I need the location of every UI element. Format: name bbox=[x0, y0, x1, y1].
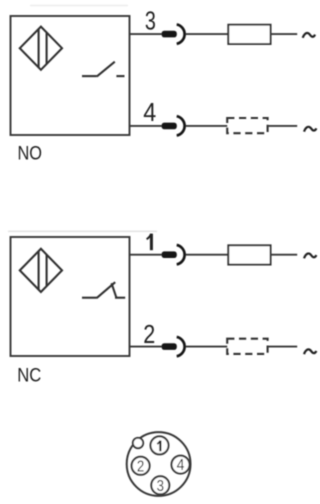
socket arc (wire 1) bbox=[177, 245, 185, 264]
wire 1 (box to plug) bbox=[130, 254, 162, 256]
optional load (dashed, wire 2) bbox=[227, 339, 267, 354]
pin 2 circle bbox=[132, 457, 150, 475]
AC source tilde (wire 2) bbox=[304, 349, 316, 354]
svg-text:2: 2 bbox=[137, 458, 144, 475]
load resistor (wire 1) bbox=[228, 245, 270, 264]
svg-text:4: 4 bbox=[177, 457, 185, 474]
wire 4 (box to plug) bbox=[130, 125, 162, 127]
pin 1 circle bbox=[151, 436, 169, 454]
wire 3 (box to plug) bbox=[130, 33, 162, 35]
plug contact (wire 4) bbox=[162, 123, 177, 130]
svg-text:4: 4 bbox=[143, 97, 156, 127]
svg-text:2: 2 bbox=[143, 319, 155, 349]
wire 2 (socket to load) bbox=[186, 346, 227, 348]
optional load (dashed, wire 4) bbox=[227, 118, 267, 133]
terminal label 1 bbox=[147, 234, 152, 251]
faint separator line (top) bbox=[30, 5, 128, 7]
load resistor (wire 3) bbox=[228, 25, 270, 44]
socket arc (wire 2) bbox=[177, 337, 185, 356]
connector face circle bbox=[127, 432, 191, 496]
NO contact symbol bbox=[82, 62, 125, 77]
wire 4 (load to source) bbox=[268, 125, 298, 127]
faint separator line (middle) bbox=[8, 230, 157, 232]
plug contact (wire 1) bbox=[162, 251, 177, 258]
plug contact (wire 2) bbox=[162, 343, 177, 350]
wire 2 (load to source) bbox=[268, 346, 298, 348]
socket arc (wire 4) bbox=[177, 116, 185, 135]
sensor body NC bbox=[11, 237, 130, 356]
AC source tilde (wire 3) bbox=[303, 33, 315, 38]
sensor body NO bbox=[11, 16, 130, 135]
svg-text:NO: NO bbox=[18, 144, 43, 165]
keyway notch bbox=[133, 438, 143, 448]
plug contact (wire 3) bbox=[162, 31, 177, 38]
wire 2 (box to plug) bbox=[130, 346, 162, 348]
AC source tilde (wire 1) bbox=[304, 254, 316, 259]
wire 4 (socket to load) bbox=[186, 125, 227, 127]
wire 3 (load to source) bbox=[271, 33, 298, 35]
wire 1 (socket to load) bbox=[186, 254, 229, 256]
svg-text:3: 3 bbox=[145, 5, 156, 35]
NC contact symbol bbox=[82, 282, 125, 298]
wire 3 (socket to load) bbox=[186, 33, 229, 35]
svg-text:3: 3 bbox=[157, 478, 165, 495]
wire 1 (load to source) bbox=[271, 254, 298, 256]
pin 4 circle bbox=[172, 456, 190, 474]
socket arc (wire 3) bbox=[177, 24, 185, 43]
pin 1 number bbox=[157, 441, 160, 452]
pin 3 circle bbox=[151, 476, 169, 494]
proximity sensor symbol (NO box) bbox=[20, 27, 62, 70]
svg-text:NC: NC bbox=[17, 366, 41, 387]
AC source tilde (wire 4) bbox=[304, 127, 316, 132]
proximity sensor symbol (NC box) bbox=[20, 249, 62, 292]
